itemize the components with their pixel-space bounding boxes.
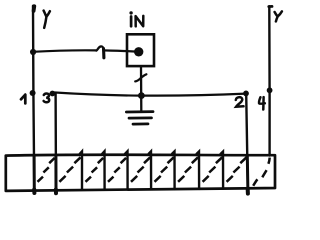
hatch cell 3 (86, 158, 104, 182)
label 1 (21, 95, 25, 104)
hatch cell 7 (178, 157, 198, 182)
hatch cell 5 (131, 157, 150, 182)
earth strip divider g (221, 152, 224, 189)
hatch cell 10 (253, 158, 270, 186)
ground symbol: bar 2 (129, 117, 152, 120)
wire: electrode 3 within earth (thicker) (54, 156, 57, 191)
electrode 2 tip blob (246, 190, 250, 194)
instrument box IN (U1) (127, 34, 154, 66)
earth strip divider e (172, 151, 175, 189)
label Y (left antenna) (44, 11, 50, 28)
wire: left antenna top start blob (32, 6, 37, 11)
hatch cell 4 (108, 158, 126, 182)
wire: right antenna down-lead (terminal 4 conductor) (268, 6, 271, 155)
wire: electrode 2 within earth (thicker) (246, 156, 250, 191)
wire: left antenna down-lead (terminal 1 conductor) (33, 6, 34, 193)
terminal dot 3 (50, 91, 56, 97)
hatch cell 9 (227, 157, 247, 182)
hatch cell 1 (38, 158, 55, 182)
earth strip outline (6, 155, 275, 191)
terminal dot inside IN box (134, 47, 143, 56)
wire: right antenna top tick (269, 5, 272, 8)
wire: feed continues into box to dot (104, 50, 136, 51)
terminal dot 1 (30, 90, 36, 96)
earth strip divider d (149, 151, 152, 189)
label Y (right antenna) (275, 11, 282, 21)
electrode 1 tip blob (32, 190, 36, 194)
earth strip divider c (125, 151, 128, 189)
wire: IN box bottom lead to ground (140, 66, 143, 111)
label 4 (259, 97, 265, 109)
earth strip divider f (197, 152, 200, 189)
terminal dot 2 (243, 91, 249, 97)
wire: squiggle mark on feed wire (96, 46, 103, 50)
hatch cell 6 (155, 157, 174, 182)
earth strip divider a (80, 151, 83, 189)
wire: electrode 1 within earth (thicker) (33, 156, 36, 191)
hatch cell 8 (203, 157, 223, 182)
wire: horizontal bus from terminal 3 to terminal 2 (53, 92, 246, 95)
hatch cell 2 (59, 157, 80, 182)
label 3 (44, 94, 50, 103)
label 2 (236, 97, 244, 107)
junction dot: feed taps left down-lead (30, 49, 36, 55)
ground symbol: bar 1 (126, 110, 153, 113)
tick mark on ground lead (135, 74, 146, 81)
label iN: letter N (136, 16, 144, 27)
junction dot: ground lead meets bus (138, 92, 145, 99)
label iN: letter i (129, 11, 132, 14)
earth strip divider b (102, 151, 105, 189)
electrode 3 tip blob (54, 190, 58, 194)
wire: terminal 2 electrode into earth (246, 94, 248, 194)
wire: horizontal feed from left antenna to IN box (33, 50, 96, 51)
terminal dot 4 (267, 87, 273, 93)
wire: terminal 3 electrode into earth (54, 94, 57, 193)
ground symbol: bar 3 (133, 123, 148, 126)
